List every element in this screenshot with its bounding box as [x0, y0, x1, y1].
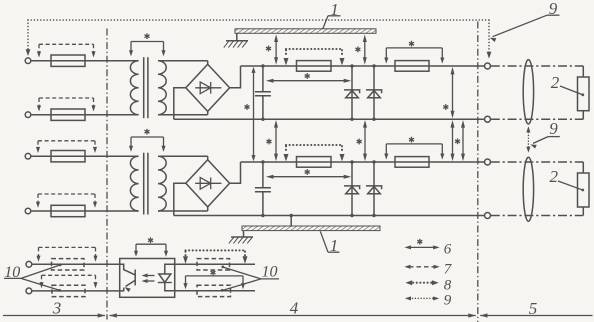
wire opto input bottom: [32, 290, 120, 292]
coupling bracket over L2 (path 6): [384, 41, 444, 64]
inter-channel coupling arrows at right (path 6): [451, 120, 466, 161]
measurement loop over R6 (path 7): [39, 275, 97, 288]
zener diode VD2: [344, 66, 360, 119]
measurement loop over R1 (interference path 7): [37, 44, 96, 57]
dimension line zone 5: [480, 313, 593, 317]
coupling bracket over optocoupler (path 6): [134, 237, 168, 256]
filter choke L1: [297, 61, 332, 72]
input terminal X4: [25, 208, 31, 214]
input terminal X1: [25, 58, 31, 64]
legend item 6: coupling via internal capacitance: [404, 239, 451, 258]
wire bridge positive output to positive rail: [230, 162, 241, 183]
wire input bottom: [31, 114, 139, 116]
zone boundary 4/5 (dash-dot): [477, 22, 479, 322]
zener diode VD3: [366, 66, 382, 119]
wire output top (zone 5): [491, 65, 584, 67]
dotted net 9: left drop to input terminal: [26, 20, 31, 56]
legend item 8: thick dotted coupling path: [405, 278, 451, 294]
wire opto output top: [175, 263, 255, 265]
svg-text:9: 9: [549, 119, 558, 138]
transformer T2 secondary winding: [158, 156, 166, 211]
load resistor 2: [578, 77, 590, 111]
resistor R7: [197, 259, 230, 270]
output terminal X8: [485, 213, 491, 219]
transformer T1 secondary winding: [158, 61, 166, 115]
bridge rectifier VD'1: [186, 160, 230, 207]
svg-text:4: 4: [290, 298, 299, 317]
filter choke L2: [395, 61, 429, 72]
output terminal X5: [485, 63, 491, 69]
wire input top: [31, 60, 139, 62]
cable screen ellipse (channel 1): [523, 60, 533, 124]
wire output bottom (zone 5): [491, 118, 584, 120]
wire bridge positive output to positive rail: [230, 66, 241, 88]
label 1 (bottom screen callout): [320, 231, 339, 255]
wire bridge AC top stub: [207, 156, 209, 160]
transformer T1 primary winding: [130, 61, 138, 115]
resistor R5: [52, 259, 85, 270]
resistor R3: [51, 151, 85, 162]
dimension line zone 3: [3, 313, 105, 317]
capacitive coupling arrows over T2 (path 6): [129, 129, 166, 152]
wire output top (zone 5): [491, 161, 584, 163]
junction at top of VD'2: [350, 160, 353, 163]
capacitance arrow screen-to-rail at x365 (path 6): [355, 34, 366, 64]
label 9 (top right callout): [490, 0, 560, 42]
svg-text:1: 1: [330, 236, 339, 255]
junction at bottom of C1: [261, 118, 264, 121]
svg-text:9: 9: [444, 293, 452, 309]
junction at top of VD'3: [372, 160, 375, 163]
wire secondary top to bridge: [158, 60, 208, 62]
svg-text:2: 2: [550, 167, 559, 186]
input terminal X3: [25, 153, 31, 159]
inter-channel coupling arrow at x276 (path 6): [266, 120, 278, 161]
coupling bracket over L'2 (path 6): [384, 137, 444, 160]
filter choke L'2: [395, 157, 429, 168]
wire bridge AC bottom stub: [207, 207, 209, 211]
label 1 (top screen callout): [323, 0, 341, 29]
junction at bottom of C'1: [261, 214, 264, 217]
output terminal X6: [485, 116, 491, 122]
dotted net 9: right drop to output terminal: [487, 20, 492, 59]
coupling loop over L1 (path 8): [284, 49, 345, 65]
inter-channel coupling arrow at x365 (path 6): [357, 120, 367, 161]
measurement arrow under L1 (path 6): [266, 73, 351, 83]
transformer T1 core: [143, 57, 145, 118]
capacitor C1: [255, 66, 271, 119]
filter choke L'1: [297, 157, 332, 168]
screen bar 1 (bottom): [242, 226, 380, 231]
junction at top of C'1: [261, 160, 264, 163]
wire to load bottom: [582, 207, 584, 216]
dotted interference net 9: top horizontal run: [28, 19, 489, 21]
junction at top of C1: [261, 64, 264, 67]
input terminal X5: [26, 261, 32, 267]
junction at top of VD2: [350, 64, 353, 67]
svg-text:5: 5: [529, 299, 538, 318]
wire opto output bottom: [175, 290, 255, 292]
measurement arrow under L'1 (path 6): [266, 169, 351, 179]
coupling loop over R7 (path 8): [183, 250, 248, 263]
wire to load top: [582, 66, 584, 77]
svg-text:3: 3: [52, 298, 62, 317]
negative rail: [174, 118, 485, 120]
input terminal X2: [25, 112, 31, 118]
wire input bottom: [31, 210, 139, 212]
resistor R4: [51, 205, 85, 216]
load resistor 2: [578, 173, 590, 207]
optocoupler light arrows: [142, 273, 155, 283]
label 2 (load of channel 2): [550, 167, 585, 192]
label 2 (load of channel 1): [551, 73, 584, 96]
wire secondary bottom to bridge: [158, 210, 208, 212]
measurement loop over R4 (interference path 7): [36, 194, 97, 208]
zener diode VD'2: [344, 162, 360, 216]
wire output bottom (zone 5): [491, 215, 584, 217]
wire secondary bottom to bridge: [158, 114, 208, 116]
zener diode VD'3: [366, 162, 382, 216]
junction at top of VD3: [372, 64, 375, 67]
optocoupler U1 phototransistor: [120, 264, 136, 292]
dimension line zone 4: [109, 313, 476, 317]
resistor R6: [52, 285, 85, 296]
legend item 7: dashed coupling path: [404, 261, 452, 277]
transformer T2 core: [143, 153, 145, 215]
optocoupler U1 body: [120, 259, 175, 298]
wire secondary top to bridge: [158, 155, 208, 157]
wire negative rail 2 to bottom screen: [290, 216, 292, 227]
measurement bracket under R7 (path 6): [183, 270, 245, 290]
measurement arrow between channel-1 rails (path 6): [443, 67, 454, 119]
measurement loop over R2 (interference path 7): [37, 98, 96, 112]
wire bridge negative output to negative rail: [174, 88, 186, 119]
svg-text:6: 6: [444, 241, 452, 257]
wire bridge AC top stub: [207, 61, 209, 64]
wire bridge AC bottom stub: [207, 111, 209, 114]
svg-text:10: 10: [262, 264, 278, 281]
wire bridge negative output to negative rail: [174, 183, 186, 215]
positive rail: [241, 65, 485, 67]
label 10 (left coupling callout): [4, 263, 62, 291]
measurement loop over R3 (interference path 7): [36, 141, 97, 153]
negative rail: [174, 215, 485, 217]
label 9 (between screens): [530, 119, 560, 148]
wire to load top: [582, 162, 584, 173]
capacitive coupling arrows over T1 (path 6): [129, 33, 166, 56]
transformer T2 primary winding: [130, 156, 138, 211]
measurement arrow from +rail1 to +rail2 (path 6): [244, 67, 255, 161]
junction at bottom of VD2: [350, 118, 353, 121]
junction at bottom of VD'2: [350, 214, 353, 217]
screen bar 1 (top): [235, 29, 376, 34]
dotted coupling arrow 9 between cable screens: [526, 126, 530, 152]
positive rail: [241, 161, 485, 163]
capacitance arrow screen-to-rail at x276 (path 6): [266, 34, 278, 64]
label 10 (right coupling callout): [221, 264, 279, 292]
capacitor C'1: [255, 162, 271, 216]
resistor R1: [51, 55, 85, 66]
svg-text:8: 8: [444, 278, 452, 294]
coupling loop over L'1 (path 8): [284, 145, 345, 161]
measurement loop over R5 (path 7): [36, 247, 97, 261]
legend item 9: fine dotted coupling path: [405, 293, 452, 309]
zone boundary 3/4 (dash-dot): [106, 29, 108, 320]
output terminal X7: [485, 159, 491, 165]
input terminal X6: [26, 288, 32, 294]
optocoupler U1 LED: [158, 264, 175, 290]
resistor R8: [197, 285, 231, 296]
wire to load bottom: [582, 111, 584, 120]
ground of top screen: [224, 33, 248, 47]
resistor R2: [51, 109, 85, 120]
svg-text:2: 2: [551, 73, 560, 92]
cable screen ellipse (channel 2): [523, 157, 533, 221]
junction at bottom of VD3: [372, 118, 375, 121]
ground of bottom screen: [229, 231, 253, 244]
bridge rectifier VD1: [186, 64, 230, 111]
junction rail2- to screen: [290, 214, 293, 217]
junction at bottom of VD'3: [372, 214, 375, 217]
wire input top: [31, 155, 139, 157]
wire opto input top: [32, 263, 120, 265]
